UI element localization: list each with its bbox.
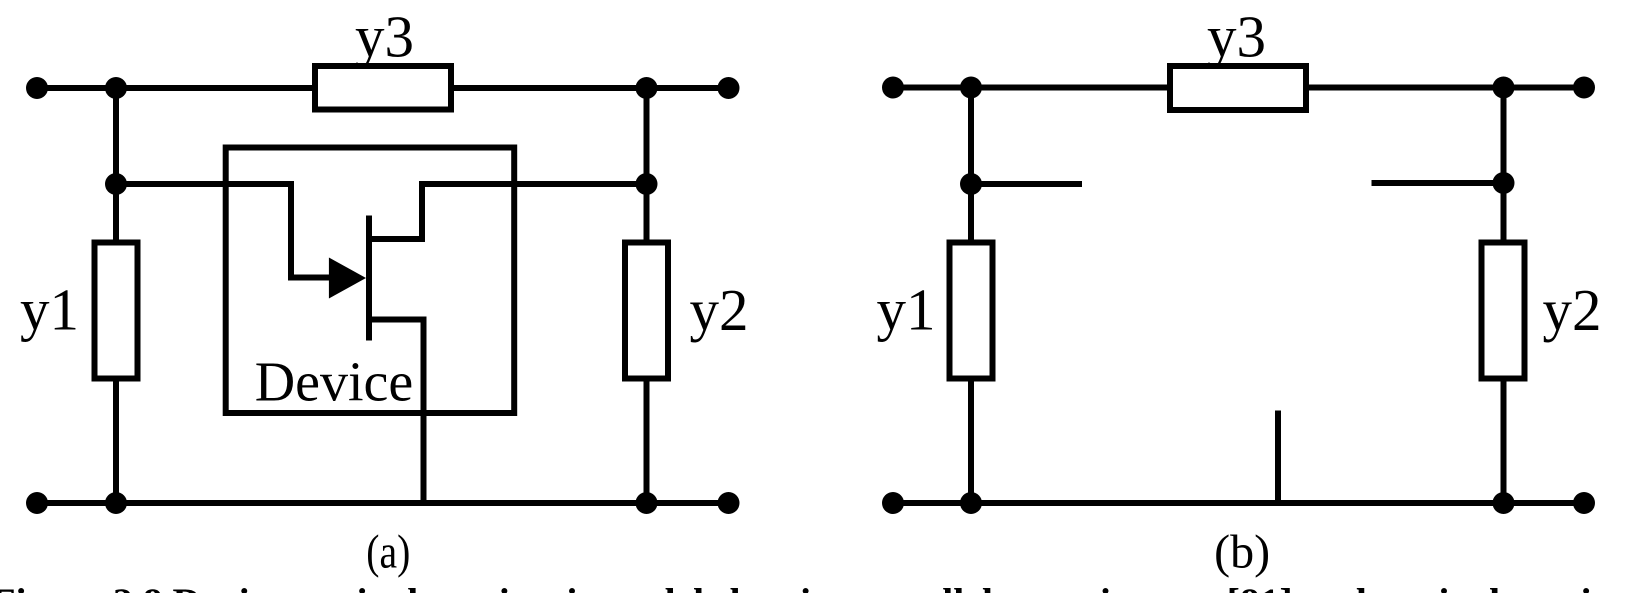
node dot: (b) top-right terminal (1573, 77, 1595, 99)
node dot: (a) bottom-left terminal (26, 492, 48, 514)
svg-text:Device: Device (255, 352, 414, 414)
svg-text:y2: y2 (1543, 277, 1602, 343)
wire: (b) right gate-row stub (1372, 180, 1504, 186)
wire: circuit (b) right shunt branch (1501, 88, 1507, 504)
svg-text:Figure 2.8 Device equivalent c: Figure 2.8 Device equivalent circuit mod… (0, 581, 1626, 593)
node dot: (a) bottom-right terminal (718, 492, 740, 514)
wire: source lead down to bottom rail (369, 320, 424, 504)
svg-text:y3: y3 (1207, 4, 1266, 70)
node dot: (b) bottom node 2 junction (1493, 492, 1515, 514)
resistor y3 (a) (315, 66, 451, 110)
node dot: (b) gate-row node 2 junction (1493, 172, 1515, 194)
transistor Q1 gate bar (366, 216, 372, 341)
svg-text:y3: y3 (355, 4, 414, 70)
resistor y2 (b) (1482, 243, 1525, 379)
node dot: (a) bottom node 1 junction (105, 492, 127, 514)
node dot: (a) top-left terminal (26, 77, 48, 99)
svg-text:y2: y2 (690, 277, 749, 343)
transistor Q1 gate arrow (329, 258, 366, 299)
node dot: (a) bottom node 2 junction (636, 492, 658, 514)
node dot: (b) bottom-left terminal (882, 492, 904, 514)
node dot: (b) top node 1 junction (960, 77, 982, 99)
wire: circuit (b) top rail (893, 85, 1584, 91)
svg-text:(b): (b) (1214, 525, 1270, 578)
wire: circuit (a) right shunt branch (644, 88, 650, 503)
wire: circuit (b) left shunt branch (968, 88, 974, 504)
node dot: (b) top node 2 junction (1493, 77, 1515, 99)
resistor y1 (b) (950, 243, 993, 379)
node dot: (a) top node 1 junction (105, 77, 127, 99)
node dot: (b) gate-row node 1 junction (960, 173, 982, 195)
node dot: (a) gate-row node 2 junction (636, 173, 658, 195)
node dot: (b) top-left terminal (882, 77, 904, 99)
wire: circuit (a) left shunt branch (113, 88, 119, 503)
wire: gate lead from node 1 into device (116, 184, 336, 278)
svg-text:(a): (a) (366, 525, 410, 578)
device box (226, 148, 515, 414)
node dot: (a) top node 2 junction (636, 77, 658, 99)
wire: circuit (b) bottom rail (893, 500, 1584, 506)
node dot: (a) gate-row node 1 junction (105, 173, 127, 195)
resistor y3 (b) (1170, 66, 1306, 110)
wire: drain lead from device to node 2 (369, 184, 647, 239)
resistor y1 (a) (95, 243, 138, 379)
wire: circuit (a) bottom rail (37, 500, 729, 506)
svg-text:y1: y1 (877, 277, 936, 343)
wire: (b) left gate-row stub (971, 181, 1082, 187)
node dot: (a) top-right terminal (718, 77, 740, 99)
resistor y2 (a) (625, 243, 668, 379)
svg-text:y1: y1 (20, 277, 79, 343)
wire: circuit (a) top rail (37, 85, 729, 91)
node dot: (b) bottom node 1 junction (960, 492, 982, 514)
wire: (b) bottom center stub (1275, 411, 1281, 504)
node dot: (b) bottom-right terminal (1573, 492, 1595, 514)
